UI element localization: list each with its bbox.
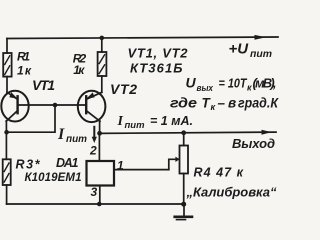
svg-text:КТ361Б: КТ361Б xyxy=(130,61,183,76)
current arrow Ipit xyxy=(92,127,97,143)
svg-text:–: – xyxy=(218,96,226,111)
svg-text:где: где xyxy=(170,96,198,111)
label R2 xyxy=(73,52,87,77)
ground xyxy=(175,204,192,220)
node top rail arrow xyxy=(255,35,267,40)
svg-text:R1: R1 xyxy=(17,50,30,64)
wire top +U rail xyxy=(7,37,278,39)
label +Upit xyxy=(229,41,273,61)
wire output line xyxy=(100,132,276,133)
svg-text:1 к: 1 к xyxy=(73,63,85,77)
svg-text:I: I xyxy=(117,114,124,129)
svg-text:R4 47 к: R4 47 к xyxy=(194,166,244,180)
node R2 rail junction xyxy=(100,36,105,41)
node R4 top junction xyxy=(181,130,186,135)
svg-text:= 1 мА.: = 1 мА. xyxy=(150,114,193,128)
transistor VT1 xyxy=(1,91,28,122)
wire base link VT1-VT2 xyxy=(18,104,87,106)
svg-text:I: I xyxy=(57,126,65,143)
wire DA1 pin2 xyxy=(98,133,100,161)
svg-text:U: U xyxy=(186,75,197,91)
node wiper arrow xyxy=(175,157,179,162)
resistor R1 xyxy=(3,53,11,77)
wire VT1 collector to R3 xyxy=(5,121,7,159)
svg-text:пит: пит xyxy=(250,49,272,60)
wire VT2 collector down xyxy=(99,121,101,133)
svg-text:1: 1 xyxy=(117,159,124,173)
wire R2 drop xyxy=(101,38,103,52)
svg-text:= 10Т: = 10Т xyxy=(219,76,248,91)
svg-text:Выход: Выход xyxy=(232,136,275,151)
svg-text:3: 3 xyxy=(91,185,98,199)
wire bottom rail xyxy=(7,203,185,205)
wire R2 to VT2 emitter xyxy=(101,76,103,92)
wire R1 to VT1 emitter xyxy=(6,77,8,93)
wire R4 to rail xyxy=(183,174,185,205)
svg-text:VT2: VT2 xyxy=(110,81,137,97)
label R1 xyxy=(17,50,32,78)
svg-text:к: к xyxy=(247,83,252,93)
node pin3 rail junction xyxy=(97,202,102,207)
wire base to collector tie xyxy=(7,105,55,132)
svg-text:пит: пит xyxy=(66,134,87,145)
node base junction xyxy=(53,103,58,108)
svg-text:(мВ),: (мВ), xyxy=(253,76,277,91)
label Ipit value xyxy=(117,114,194,130)
resistor R3 xyxy=(3,159,11,185)
node ground rail junction xyxy=(181,202,186,207)
wire R4 drop xyxy=(183,133,185,146)
wire R1 drop from rail xyxy=(6,39,8,54)
svg-text:К1019ЕМ1: К1019ЕМ1 xyxy=(25,172,82,184)
svg-text:град.К: град.К xyxy=(238,96,280,111)
svg-text:R3*: R3* xyxy=(16,158,41,172)
svg-text:+U: +U xyxy=(229,41,250,58)
wire R3 to bottom rail xyxy=(6,185,8,204)
wire R4 wiper xyxy=(169,159,176,169)
svg-text:1 к: 1 к xyxy=(17,64,32,78)
wire DA1 pin3 xyxy=(99,186,101,205)
wire DA1 pin1 xyxy=(114,169,169,171)
svg-text:„Калибровка“: „Калибровка“ xyxy=(186,185,278,200)
svg-text:VT1, VT2: VT1, VT2 xyxy=(128,45,189,60)
svg-text:VT1: VT1 xyxy=(32,77,55,93)
node VT2 collector junction xyxy=(97,131,102,136)
transistor VT2 xyxy=(78,91,106,122)
svg-text:пит: пит xyxy=(125,120,145,130)
label Uvyh formula xyxy=(186,75,277,93)
label Ipit near VT2 xyxy=(57,126,87,145)
svg-text:DA1: DA1 xyxy=(56,156,79,170)
node collector tie xyxy=(4,130,9,135)
svg-text:к: к xyxy=(211,102,216,112)
label Tk note line2 xyxy=(170,96,280,113)
svg-text:вых: вых xyxy=(197,83,214,93)
resistor R2 xyxy=(98,52,107,76)
svg-text:2: 2 xyxy=(89,144,97,158)
op-amp U1 DA1 box xyxy=(87,161,115,186)
svg-text:в: в xyxy=(228,96,236,111)
node output arrow xyxy=(262,130,272,135)
resistor R4 xyxy=(180,146,189,174)
